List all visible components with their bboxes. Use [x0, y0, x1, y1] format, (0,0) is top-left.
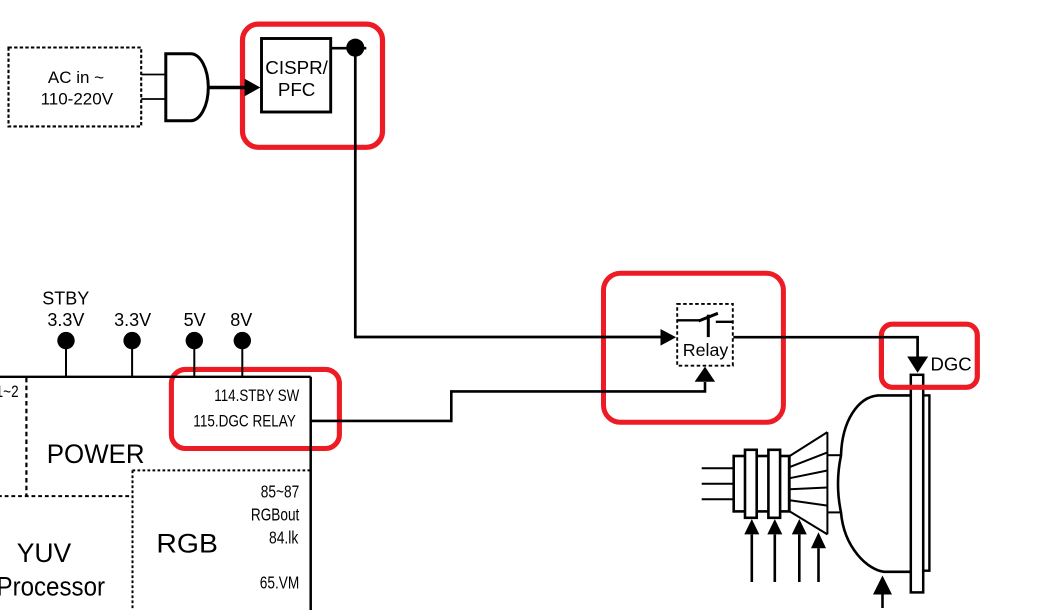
CRT arrow 1 — [744, 519, 759, 582]
POWER box right edge — [309, 377, 312, 610]
svg-text:CISPR/: CISPR/ — [265, 57, 328, 78]
CRT back screen bar — [923, 395, 929, 570]
CRT yoke fan lines — [790, 432, 828, 534]
svg-text:110-220V: 110-220V — [41, 89, 114, 108]
AC input dashed box — [9, 48, 142, 127]
CRT neck connector bottom — [827, 511, 841, 513]
svg-text:AC in ~: AC in ~ — [48, 68, 104, 87]
CRT arrow 2 — [767, 519, 782, 582]
relay dashed box — [677, 304, 733, 366]
terminal 5V — [186, 332, 203, 349]
svg-text:Processor: Processor — [0, 572, 105, 602]
CRT gun pin 1 — [702, 467, 734, 469]
CISPR/PFC box — [262, 39, 331, 113]
svg-text:5V: 5V — [184, 310, 206, 330]
CRT arrow 3 — [792, 519, 807, 582]
red highlight box DGC — [881, 324, 977, 387]
wire AC line 1 — [141, 74, 166, 76]
terminal 8V — [234, 332, 251, 349]
relay switch right lead — [716, 321, 733, 323]
terminal stub 1 — [65, 340, 67, 377]
svg-text:YUV: YUV — [17, 538, 72, 568]
wire CISPR output — [331, 47, 367, 50]
svg-text:65.VM: 65.VM — [260, 572, 300, 592]
CRT gun grid bar 2 — [768, 450, 780, 518]
CRT neck connector top — [827, 454, 841, 456]
arrowhead into CISPR/PFC — [245, 79, 261, 96]
svg-text:Relay: Relay — [683, 340, 729, 360]
CRT bulb bottom arrow — [873, 576, 892, 609]
svg-text:POWER: POWER — [47, 439, 145, 469]
relay switch blade — [699, 313, 718, 321]
svg-text:8V: 8V — [230, 310, 252, 330]
relay actuator stem — [707, 315, 710, 337]
terminal stub 4 — [241, 340, 243, 377]
arrowhead DGC down — [907, 357, 928, 373]
wire junction down to relay — [355, 48, 661, 337]
svg-text:DGC: DGC — [931, 354, 972, 375]
RGB box left dotted edge — [132, 470, 134, 610]
CRT gun body — [734, 456, 789, 511]
svg-text:RGBout: RGBout — [251, 505, 300, 525]
CRT yoke fan left edge — [789, 456, 791, 511]
CRT gun pin 2 — [702, 483, 734, 485]
svg-text:84.lk: 84.lk — [269, 528, 298, 548]
svg-text:STBY: STBY — [42, 289, 89, 309]
arrowhead into relay — [661, 329, 677, 346]
terminal stub 3 — [193, 340, 195, 377]
svg-text:3.3V: 3.3V — [114, 310, 151, 330]
svg-text:85~87: 85~87 — [261, 482, 300, 502]
CRT gun grid bar 1 — [745, 450, 757, 518]
CRT bulb — [838, 395, 911, 571]
wire DGC relay control — [311, 382, 705, 421]
RGB box top dotted edge — [133, 469, 311, 471]
CRT yoke fan right edge — [826, 432, 828, 534]
red highlight box relay — [604, 273, 784, 422]
wire AC line 2 — [141, 98, 166, 100]
wire gate output — [208, 86, 245, 90]
svg-text:1~2: 1~2 — [0, 382, 19, 401]
red highlight box CISPR — [243, 24, 383, 147]
svg-text:114.STBY SW: 114.STBY SW — [214, 386, 299, 405]
terminal STBY 3.3V — [57, 332, 74, 349]
svg-text:PFC: PFC — [278, 79, 316, 100]
svg-text:RGB: RGB — [156, 529, 218, 559]
svg-text:3.3V: 3.3V — [47, 310, 84, 330]
terminal stub 2 — [131, 340, 133, 377]
CRT front screen bar — [911, 375, 923, 593]
POWER box top edge — [0, 376, 311, 378]
YUV box top dashed edge — [0, 495, 131, 497]
arrowhead into relay bottom — [695, 367, 716, 382]
svg-text:115.DGC RELAY: 115.DGC RELAY — [193, 412, 296, 431]
wire relay output — [733, 337, 917, 358]
relay switch left lead — [677, 319, 699, 321]
red highlight box STBY/DGC pins — [171, 369, 339, 448]
CRT gun pin 3 — [702, 498, 734, 500]
junction dot — [346, 39, 364, 57]
POWER/YUV dotted divider — [25, 378, 27, 496]
CRT arrow 4 — [811, 532, 826, 582]
AND-gate style plug symbol — [166, 54, 208, 121]
terminal 3.3V — [123, 332, 140, 349]
